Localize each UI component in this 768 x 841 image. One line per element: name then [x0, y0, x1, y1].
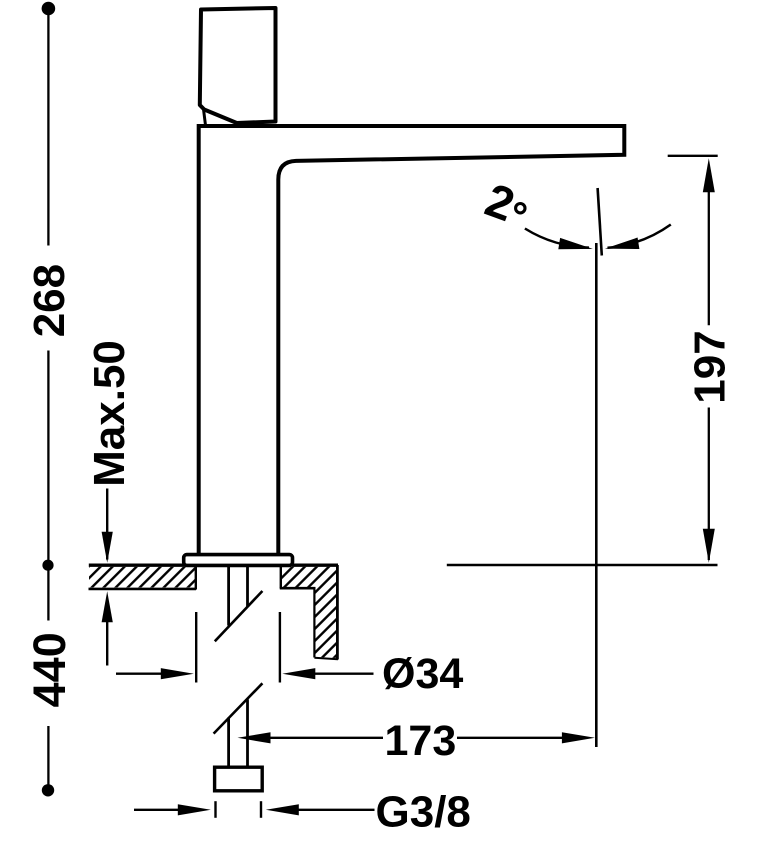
dimension Ø34 left arrow line — [116, 673, 164, 675]
dimension middle dot — [42, 560, 53, 571]
countertop right inner vertical edge — [313, 587, 315, 658]
dimension G3/8 left arrowhead — [178, 804, 211, 815]
faucet handle — [200, 8, 276, 123]
countertop right outer vertical edge — [336, 565, 339, 660]
dimension 440 line lower segment — [47, 726, 49, 790]
dimension 173 right arrowhead — [562, 732, 595, 743]
countertop left hatched section — [89, 567, 196, 588]
svg-text:197: 197 — [686, 330, 735, 403]
svg-text:G3/8: G3/8 — [376, 788, 471, 837]
dimension 440 line upper segment — [47, 565, 49, 621]
dimension Ø34 right arrow line — [314, 673, 374, 675]
countertop left bottom line — [89, 588, 197, 591]
Max.50 lower arrow line — [106, 620, 108, 666]
countertop hole left edge — [195, 565, 197, 590]
Max.50 lower arrowhead (up) — [102, 591, 113, 622]
countertop right inner bottom line — [280, 587, 316, 590]
spray tilted line (2 deg) — [598, 188, 602, 256]
dimension G3/8 right tick — [260, 801, 262, 818]
pipe break line 1 — [215, 591, 263, 641]
supply shank lower left line — [227, 718, 230, 768]
supply shank upper left line — [227, 566, 230, 626]
svg-text:173: 173 — [385, 717, 457, 765]
dimension bottom dot — [42, 784, 54, 796]
dimension G3/8 right arrowhead — [266, 804, 299, 815]
dimension 268 line lower segment — [47, 351, 49, 565]
2° right arrowhead — [604, 238, 639, 255]
dimension 173 left arrowhead — [238, 732, 271, 743]
2° arc right branch — [608, 225, 671, 248]
svg-text:440: 440 — [24, 632, 75, 707]
dimension G3/8 left tick — [214, 801, 216, 818]
2° arc left branch — [525, 229, 589, 248]
dimension 197 top tick — [668, 155, 718, 157]
handle lever slit line — [204, 110, 206, 125]
dimension 268/440 vertical line: top dot — [42, 2, 56, 16]
G3/8 fitting body — [215, 767, 263, 791]
svg-text:Max.50: Max.50 — [85, 340, 134, 487]
countertop right top line (thick part) — [292, 564, 338, 567]
svg-text:268: 268 — [25, 264, 74, 337]
dimension 197 bottom arrowhead (down) — [703, 529, 715, 563]
Max.50 upper arrowhead (down) — [102, 532, 113, 563]
countertop left top line — [89, 564, 196, 567]
dimension 197 top arrowhead (up) — [703, 158, 715, 192]
dimension G3/8 left arrow line — [134, 809, 180, 811]
dimension Ø34 left extension tick — [195, 612, 197, 683]
countertop reference line extension to 197 dim — [447, 564, 718, 567]
dimension 268 line upper segment — [47, 10, 49, 246]
countertop hole right edge — [280, 565, 282, 589]
Max.50 upper arrow line — [106, 489, 108, 560]
dimension Ø34 left arrowhead — [161, 668, 194, 679]
dimension 173 right line — [457, 737, 563, 739]
faucet base flange — [184, 555, 293, 566]
spray axis vertical line — [595, 243, 598, 747]
dimension Ø34 right arrowhead — [282, 668, 315, 679]
countertop right bottom edge — [314, 658, 338, 659]
2° left arrowhead — [558, 238, 593, 255]
supply shank upper right line — [246, 566, 249, 607]
pipe break line 2 — [214, 683, 263, 733]
countertop right hatched L-section — [281, 567, 337, 658]
dimension Ø34 right extension tick — [279, 612, 281, 683]
svg-text:Ø34: Ø34 — [382, 650, 463, 698]
faucet body and spout outline — [199, 126, 625, 556]
dimension 197 upper line — [708, 190, 710, 325]
supply shank lower right line — [246, 700, 249, 768]
dimension 197 lower line — [708, 408, 710, 561]
dimension 173 left line — [269, 737, 383, 739]
dimension G3/8 right arrow line — [297, 809, 375, 811]
